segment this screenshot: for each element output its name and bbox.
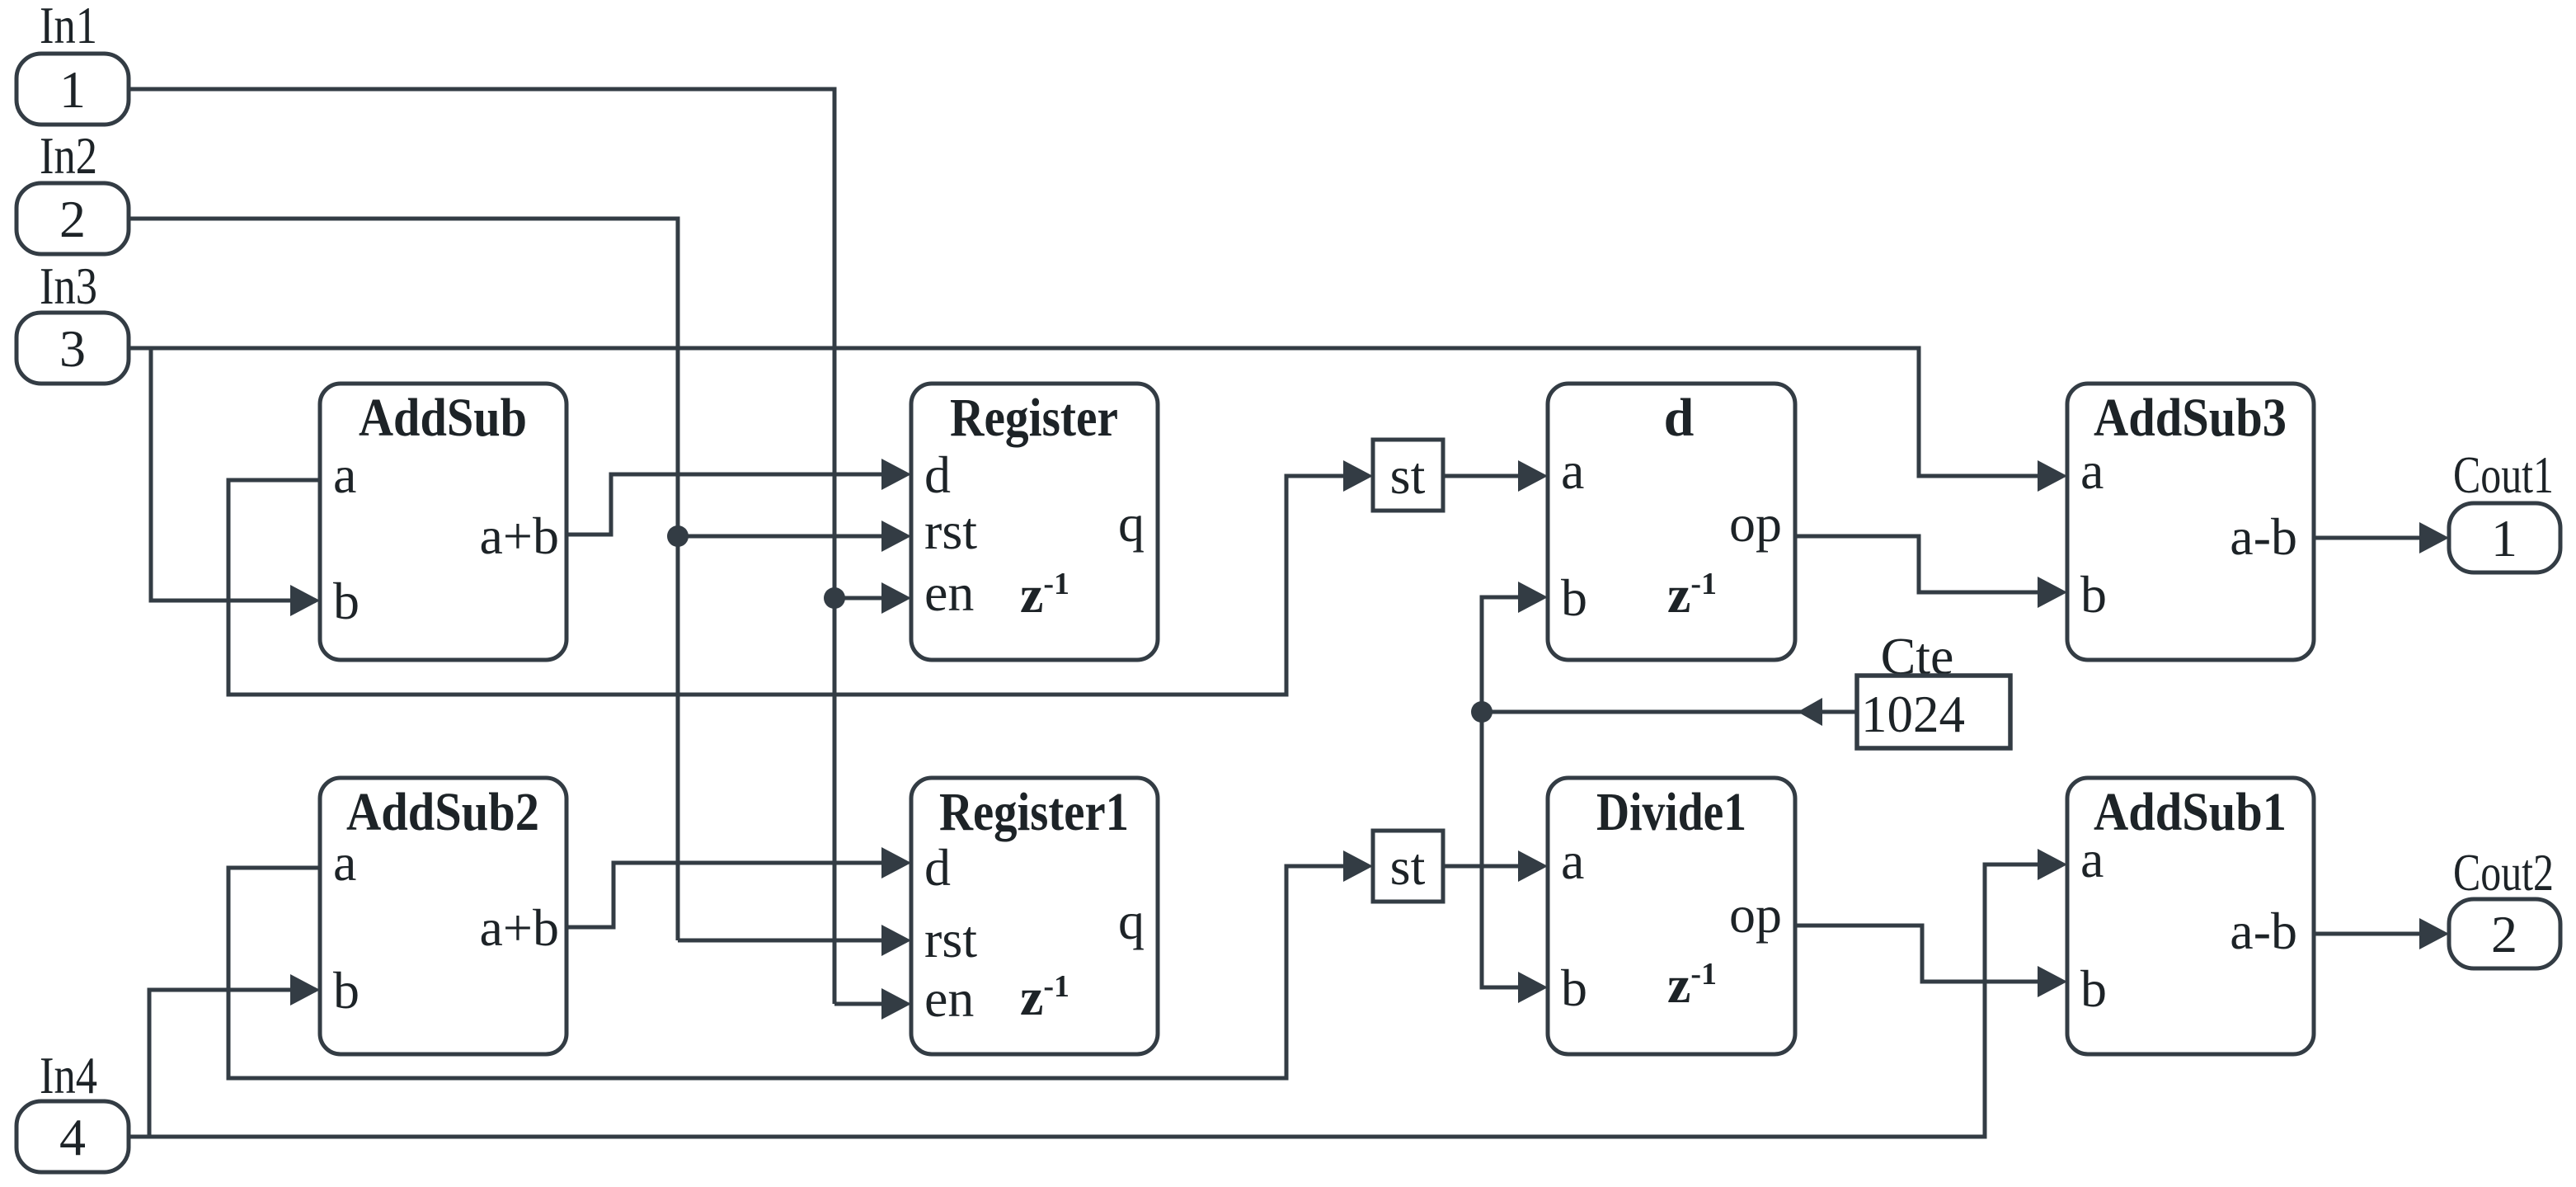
svg-text:d: d	[924, 445, 951, 504]
svg-text:b: b	[1561, 959, 1587, 1017]
arrow into Register en	[881, 582, 911, 614]
svg-text:a+b: a+b	[480, 898, 560, 957]
wire st top to d block a	[1443, 474, 1518, 478]
arrow into Divide1 a	[1518, 850, 1548, 882]
block Register	[911, 384, 1158, 660]
output port Cout1	[2449, 445, 2560, 572]
arrow into AddSub3 b	[2038, 577, 2067, 608]
svg-text:Divide1: Divide1	[1596, 782, 1746, 842]
arrow into d block b	[1518, 582, 1548, 613]
svg-text:a: a	[1561, 831, 1584, 890]
arrow into Cout1	[2419, 522, 2449, 553]
wire rst tap to Register rst	[678, 535, 881, 539]
svg-text:In4: In4	[40, 1046, 97, 1105]
svg-text:a-b: a-b	[2230, 902, 2297, 960]
svg-text:en: en	[924, 969, 974, 1028]
input port In4	[16, 1046, 129, 1172]
svg-text:1: 1	[2491, 509, 2517, 568]
arrow into Register1 rst	[881, 925, 911, 956]
svg-text:a+b: a+b	[480, 506, 560, 565]
output port Cout2	[2449, 843, 2560, 968]
arrow into Divide1 b	[1518, 972, 1548, 1003]
arrow into AddSub1 a	[2038, 849, 2067, 880]
svg-text:a: a	[333, 833, 356, 892]
arrow into AddSub1 b	[2038, 966, 2067, 997]
wire In2 to rst rail	[129, 219, 678, 940]
svg-text:AddSub2: AddSub2	[346, 782, 539, 842]
svg-text:2: 2	[59, 190, 86, 248]
wire AddSub2 a / st loop	[228, 866, 1343, 1078]
svg-text:q: q	[1118, 892, 1145, 950]
svg-text:In1: In1	[40, 0, 97, 54]
svg-text:q: q	[1118, 494, 1145, 553]
block st (bottom sample-time box)	[1373, 831, 1443, 902]
wire Cte rail down to Divide1 b	[1482, 712, 1518, 987]
wire In3 branch to AddSub b	[151, 348, 290, 601]
svg-text:1: 1	[59, 60, 86, 119]
svg-text:Cout1: Cout1	[2453, 445, 2554, 504]
svg-text:AddSub: AddSub	[359, 388, 527, 448]
svg-text:st: st	[1390, 837, 1426, 896]
input port In2	[16, 126, 129, 254]
svg-text:a: a	[2080, 441, 2104, 500]
svg-text:1024: 1024	[1861, 685, 1965, 743]
arrow into AddSub b	[290, 585, 320, 616]
wire In4 branch to AddSub2 b	[149, 990, 290, 1137]
wire In1 to en rail	[129, 89, 834, 1004]
arrow into Register d	[881, 459, 911, 490]
svg-text:en: en	[924, 563, 974, 622]
svg-text:d: d	[1664, 388, 1695, 448]
junction dot Cte rail	[1471, 701, 1492, 723]
junction dot en tap	[824, 587, 845, 609]
arrow into d block a	[1518, 460, 1548, 492]
wire AddSub a / st loop	[228, 476, 1343, 695]
block Divide1	[1548, 778, 1795, 1054]
input port In3	[16, 257, 129, 384]
wire AddSub a+b to Register d	[566, 474, 881, 535]
wire In4 trunk to AddSub1 a	[129, 864, 2038, 1137]
block AddSub2	[320, 778, 566, 1054]
arrow into st bottom	[1343, 850, 1373, 882]
svg-text:d: d	[924, 838, 951, 897]
wire en tap to Register en	[834, 596, 881, 601]
junction dot rst tap	[667, 525, 689, 547]
svg-text:Register1: Register1	[939, 782, 1129, 842]
arrow into AddSub3 a	[2038, 460, 2067, 492]
svg-text:rst: rst	[924, 910, 977, 968]
svg-text:a: a	[333, 445, 356, 504]
svg-text:AddSub3: AddSub3	[2094, 388, 2287, 448]
block AddSub3	[2067, 384, 2314, 660]
constant Cte 1024	[1857, 627, 2010, 748]
svg-text:3: 3	[59, 319, 86, 378]
wire en rail into Register1 en	[834, 1002, 881, 1006]
svg-text:b: b	[2080, 959, 2107, 1018]
wire Divide1 op to AddSub1 b	[1795, 926, 2038, 982]
block st (top sample-time box)	[1373, 440, 1443, 511]
wire st bottom to Divide1 a	[1443, 864, 1518, 869]
wire Cte 1024 feedback rail	[1482, 710, 1857, 714]
svg-text:st: st	[1390, 446, 1426, 505]
svg-text:op: op	[1729, 885, 1782, 944]
svg-text:b: b	[333, 572, 360, 630]
svg-text:rst: rst	[924, 502, 977, 560]
svg-text:a-b: a-b	[2230, 507, 2297, 566]
wire rst rail into Register1 rst	[678, 939, 881, 943]
arrow into Register rst	[881, 520, 911, 552]
arrow into Register1 en	[881, 988, 911, 1020]
wire In3 trunk to AddSub3 a	[129, 348, 2038, 476]
svg-text:In3: In3	[40, 257, 97, 315]
svg-text:Register: Register	[950, 388, 1118, 448]
wire AddSub2 a+b to Register1 d	[566, 863, 881, 927]
svg-text:op: op	[1729, 494, 1782, 553]
block d (divide)	[1548, 384, 1795, 660]
svg-text:Cout2: Cout2	[2453, 843, 2554, 902]
wire Cte rail up to d block b	[1482, 597, 1518, 712]
block AddSub1	[2067, 778, 2314, 1054]
arrow into st top	[1343, 460, 1373, 492]
svg-text:In2: In2	[40, 126, 97, 185]
svg-text:4: 4	[59, 1108, 86, 1166]
wire AddSub3 a-b to Cout1	[2314, 536, 2419, 540]
input port In1	[16, 0, 129, 125]
wire d block op to AddSub3 b	[1795, 536, 2038, 592]
svg-text:2: 2	[2491, 905, 2517, 963]
svg-text:a: a	[2080, 830, 2104, 888]
svg-text:b: b	[2080, 565, 2107, 624]
arrowhead mid-wire on Cte rail	[1798, 698, 1822, 726]
svg-text:AddSub1: AddSub1	[2094, 782, 2287, 842]
svg-text:b: b	[1561, 568, 1587, 627]
wire AddSub1 a-b to Cout2	[2314, 932, 2419, 936]
arrow into Register1 d	[881, 847, 911, 878]
arrow into Cout2	[2419, 918, 2449, 949]
svg-text:b: b	[333, 961, 360, 1020]
block AddSub	[320, 384, 566, 660]
svg-text:a: a	[1561, 441, 1584, 500]
arrow into AddSub2 b	[290, 974, 320, 1006]
block Register1	[911, 778, 1158, 1054]
